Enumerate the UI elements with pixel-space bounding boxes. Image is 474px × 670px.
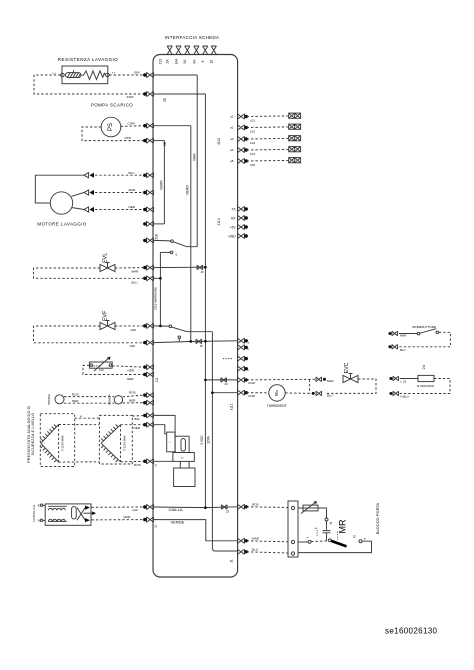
switch S1 blade — [173, 242, 197, 247]
svg-text:RESISTENZA LAVAGGIO: RESISTENZA LAVAGGIO — [58, 57, 118, 62]
svg-text:FILTRO A.D.: FILTRO A.D. — [32, 504, 36, 522]
svg-text:a3: a3 — [230, 137, 234, 141]
svg-text:NERO: NERO — [186, 185, 190, 195]
svg-text:NTB: NTB — [125, 136, 131, 140]
junction dot GIA-V2 — [204, 506, 207, 509]
sensor NTC term left — [90, 364, 93, 367]
wire press2 — [154, 425, 167, 434]
board right pin bottom 2 — [238, 538, 248, 543]
motor wire 3 dashed — [95, 209, 144, 211]
doorlock cap wire 2 — [326, 533, 328, 542]
motor connector pair 1 — [84, 173, 94, 178]
board left pin J8 (y=223.9) — [143, 221, 153, 226]
lamp wire 5 — [247, 159, 289, 162]
svg-text:23: 23 — [226, 509, 230, 513]
doorlock bottom rail — [298, 541, 372, 552]
svg-text:J112: J112 — [217, 138, 221, 145]
svg-text:VERDE: VERDE — [171, 519, 185, 524]
wire y=125.7 — [154, 125, 191, 127]
svg-text:12K: 12K — [99, 368, 104, 372]
svg-text:BLU: BLU — [252, 547, 258, 551]
svg-text:GRI: GRI — [130, 344, 136, 348]
doorlock term 2 — [291, 540, 294, 543]
valve EVF — [100, 321, 115, 330]
switch S1 contact circle — [171, 240, 174, 243]
relay block B inner — [181, 439, 185, 452]
board left pin J12 (y=325.9) — [143, 323, 153, 328]
filter term top — [40, 504, 42, 506]
svg-text:GRI: GRI — [131, 328, 137, 332]
svg-text:J113 MARRONE: J113 MARRONE — [154, 287, 158, 310]
svg-text:5: 5 — [176, 253, 178, 257]
svg-text:R.230V/16W: R.230V/16W — [417, 384, 434, 388]
svg-text:GIA: GIA — [133, 508, 139, 512]
svg-text:C: C — [351, 535, 356, 538]
svg-text:BLU: BLU — [400, 348, 406, 352]
wire EVC dashed — [247, 378, 316, 381]
wire M dashed a — [247, 392, 269, 394]
switch S2 contact 2 — [178, 336, 181, 339]
board left pin J5 (y=175.2) — [143, 173, 153, 178]
wire EVC y=379.9 — [205, 379, 237, 381]
svg-text:N.BLU: N.BLU — [401, 395, 410, 399]
svg-text:TX: TX — [231, 207, 236, 211]
relay block D — [174, 468, 195, 487]
svg-text:2E: 2E — [163, 98, 167, 102]
connector J14 pin 1 — [238, 206, 248, 211]
board left pin J1 (y=75) — [143, 72, 153, 77]
svg-text:N: N — [38, 519, 40, 523]
svg-text:MAR: MAR — [252, 536, 260, 540]
svg-text:24: 24 — [421, 364, 426, 369]
svg-text:INTERFACCIA SCHEDA: INTERFACCIA SCHEDA — [165, 35, 220, 40]
wire sensor R dashed b — [123, 402, 144, 404]
svg-text:E: E — [38, 504, 40, 508]
wire V5 vertical x=212.4 — [212, 332, 237, 551]
connector inline EVL — [197, 265, 203, 270]
lamp wire 1 — [247, 115, 289, 118]
svg-text:P.1234 MAX: P.1234 MAX — [122, 435, 126, 450]
svg-text:-: - — [92, 66, 93, 70]
board left pin J2 (y=94) — [143, 91, 153, 96]
wire doorlock L1 dashed — [247, 506, 288, 509]
motor connector pair 3 — [84, 207, 94, 212]
svg-text:+5V: +5V — [230, 225, 237, 229]
resistor R2 body — [418, 375, 434, 381]
board right pin mid 4 — [238, 366, 248, 371]
wire press1 — [154, 415, 176, 436]
svg-text:COM: COM — [248, 381, 256, 385]
board left pin J9 (y=240.4) — [143, 238, 153, 243]
svg-text:L: L — [314, 527, 318, 529]
wire doorlock L3 dashed — [247, 552, 288, 553]
relay stub 1 — [179, 461, 181, 468]
junction dot M-V5 — [211, 391, 214, 394]
svg-text:MAR: MAR — [327, 379, 333, 383]
svg-text:c: c — [248, 368, 250, 372]
board right pin mid 5 — [238, 377, 248, 382]
svg-text:a5: a5 — [230, 159, 234, 163]
wire EVL right dashed — [115, 267, 144, 269]
relay dashed vert — [337, 532, 339, 541]
connector J13 pin 5 — [203, 46, 208, 55]
pressure switch left triangle — [41, 424, 59, 462]
connector EVC 2 — [316, 391, 322, 396]
switch S1 stub — [154, 239, 171, 242]
doorlock dashed link — [311, 540, 328, 543]
filter capacitor — [72, 507, 77, 519]
doorlock term 1 — [291, 506, 294, 509]
pressure switch left dashed box — [40, 414, 74, 467]
switch S2 contact circle — [169, 325, 172, 328]
wire EVL y=267.6 — [154, 266, 206, 268]
motor wire 3 — [72, 208, 84, 210]
wire EVC right dashed — [326, 379, 376, 393]
relay pivot — [328, 539, 331, 542]
svg-text:GRI: GRI — [134, 71, 140, 75]
svg-text:MAR: MAR — [400, 334, 406, 338]
relay stub 2 — [188, 461, 190, 468]
svg-text:MAR: MAR — [124, 515, 132, 519]
connector J13 pin 3 — [185, 46, 190, 55]
filter arrow top — [85, 506, 90, 510]
svg-text:COM: COM — [248, 394, 256, 398]
svg-text:MARR: MARR — [159, 180, 163, 190]
filter term bottom — [40, 519, 42, 521]
wire filter top dashed — [92, 506, 144, 508]
doorlock fuse F2 — [301, 502, 318, 514]
svg-text:INTERRUTTORE: INTERRUTTORE — [412, 325, 436, 329]
svg-text:NER: NER — [127, 377, 134, 381]
connector J14 pin 3 — [238, 224, 248, 229]
motor connector pair 2 — [84, 190, 94, 195]
svg-text:MAR: MAR — [193, 153, 197, 161]
svg-text:NER: NER — [72, 399, 79, 403]
main control board outline U1 — [153, 55, 238, 578]
wire press link apex — [59, 424, 100, 426]
svg-text:GND: GND — [228, 234, 236, 238]
board right pin lamp L1 — [238, 114, 248, 119]
svg-text:J111: J111 — [230, 403, 234, 410]
svg-text:L05: L05 — [250, 163, 255, 167]
svg-text:a1: a1 — [230, 115, 234, 119]
svg-text:NER: NER — [134, 426, 141, 430]
pump PS circle — [101, 117, 121, 137]
lamp DL3 — [289, 136, 301, 141]
svg-text:L02: L02 — [250, 130, 255, 134]
switch S2 blade — [172, 327, 213, 332]
svg-text:L04: L04 — [250, 152, 255, 156]
junction dot EVFr-V3 — [190, 340, 193, 343]
wire EVL return y=278.3 — [154, 277, 161, 279]
board right pin lamp L3 — [238, 136, 248, 141]
svg-text:ROS: ROS — [129, 391, 136, 395]
wire M dashed b — [285, 392, 309, 395]
svg-text:MOTORE LAVAGGIO: MOTORE LAVAGGIO — [37, 222, 86, 227]
svg-text:14A: 14A — [174, 58, 178, 65]
connector J14 pin 2 — [238, 215, 248, 220]
svg-text:P.1234 MAX: P.1234 MAX — [61, 435, 65, 450]
board right pin mid 6 — [238, 390, 248, 395]
board left pin J17 (y=402.7) — [143, 400, 153, 405]
svg-text:230V: 230V — [127, 95, 135, 99]
svg-text:PS: PS — [108, 123, 114, 131]
switch S1 contact 2 — [170, 251, 173, 254]
connector inline EVC — [221, 378, 227, 383]
svg-text:2L: 2L — [154, 524, 158, 528]
svg-text:J114: J114 — [217, 218, 221, 225]
doorlock cap wire — [326, 521, 328, 530]
svg-text:J9: J9 — [201, 270, 204, 274]
valve EVL — [100, 263, 115, 272]
svg-text:se160026130: se160026130 — [385, 627, 438, 636]
wire resistor loop — [34, 75, 144, 94]
lamp wire 2 — [247, 126, 289, 129]
svg-text:TURBOVENT.: TURBOVENT. — [267, 404, 287, 408]
wire y=96 — [154, 93, 206, 95]
svg-text:~: ~ — [169, 441, 171, 445]
board left pin J4 (y=140.6) — [143, 138, 153, 143]
wire y=223.9 — [154, 223, 165, 225]
wire EVL left loop dashed — [34, 268, 144, 278]
wire GIALLA y=507 — [154, 506, 238, 509]
capacitor C1 — [323, 531, 331, 533]
svg-text:J11: J11 — [155, 377, 159, 382]
pressure switch right triangle — [101, 425, 120, 463]
wire EVF y=325.9 — [154, 325, 170, 327]
board right pin mid 1 — [238, 338, 248, 343]
wire PS loop — [82, 127, 144, 141]
svg-text:BLOCCO PORTA: BLOCCO PORTA — [375, 502, 380, 534]
sensor circle left — [55, 395, 64, 404]
svg-text:23: 23 — [225, 382, 229, 386]
svg-text:SONDA: SONDA — [107, 393, 111, 405]
board left pin J13 (y=342.6) — [143, 340, 153, 345]
svg-text:6A: 6A — [192, 59, 196, 64]
lamp DL1 — [289, 113, 301, 118]
svg-text:J1: J1 — [230, 559, 234, 563]
connector SW1 b — [392, 345, 398, 350]
svg-text:2E: 2E — [163, 142, 167, 146]
connector inline GIA — [221, 505, 227, 510]
wire PS to COM pin — [121, 125, 144, 128]
doorlock fuse wire a — [298, 507, 303, 509]
svg-text:BLU: BLU — [327, 393, 333, 397]
wire V4 vertical x=164.4 — [163, 141, 165, 224]
relay blade MR — [331, 541, 347, 547]
board left pin J20 (y=461.3) — [143, 459, 153, 464]
wire sensor L dashed a — [64, 396, 114, 398]
resistor R1 terminal left — [61, 73, 65, 77]
connector J14 pin 4 — [238, 233, 248, 238]
connector EVC 1 — [316, 377, 322, 382]
wire press right bottom — [121, 460, 144, 462]
svg-text:ROS: ROS — [72, 392, 79, 396]
lamp wire 4 — [247, 148, 289, 151]
relay block C — [173, 453, 194, 462]
wire VERDE y=519.6 — [154, 520, 238, 541]
svg-text:POMPA SCARICO: POMPA SCARICO — [91, 103, 133, 108]
board right pin bottom 1 — [238, 504, 248, 509]
svg-text:EVF: EVF — [103, 310, 109, 321]
doorlock wire to N — [318, 508, 327, 518]
filter FL1 box — [45, 504, 91, 525]
lamp DL4 — [289, 147, 301, 152]
label L dashes — [316, 530, 318, 537]
wire EVF right dashed — [115, 325, 144, 327]
junction dot EVC-V2 — [204, 379, 207, 382]
lamp DL5 — [289, 158, 301, 163]
sensor circle right — [114, 396, 122, 404]
lamp wire 3 — [247, 137, 289, 140]
board left pin J6 (y=192.5) — [143, 190, 153, 195]
svg-text:BLU: BLU — [132, 280, 138, 284]
svg-text:a2: a2 — [230, 126, 234, 130]
wire NTC loop dashed — [83, 365, 144, 374]
doorlock term C — [359, 540, 362, 543]
relay block A — [167, 432, 175, 452]
svg-text:ROS: ROS — [252, 502, 259, 506]
relay block B — [175, 436, 189, 452]
wire sensor R dashed a — [123, 395, 144, 397]
wire V4b vertical x=160.4 — [159, 252, 161, 326]
svg-text:b: b — [248, 347, 250, 351]
board left pin J19 (y=424.7) — [143, 422, 153, 427]
svg-text:N: N — [328, 521, 333, 524]
wire y=75 — [154, 74, 198, 76]
svg-text:BLU: BLU — [129, 171, 135, 175]
connector SW1 a — [392, 331, 398, 336]
svg-text:MAR: MAR — [132, 270, 140, 274]
board right pin lamp L4 — [238, 147, 248, 152]
valve EVC — [343, 374, 358, 383]
svg-text:-o-: -o- — [181, 456, 184, 460]
svg-text:EVL: EVL — [103, 253, 109, 263]
board right pin bottom 3 — [238, 549, 248, 554]
filter coil bottom — [48, 519, 67, 521]
filter coil top — [48, 506, 67, 510]
svg-text:a: a — [248, 340, 250, 344]
svg-text:SICUREZZA E LIVELLO: SICUREZZA E LIVELLO — [31, 413, 35, 456]
pressure switch right dashed box — [99, 415, 132, 464]
connector J13 pin 6 — [211, 46, 216, 55]
svg-text:NER: NER — [129, 205, 136, 209]
wire M y=392.7 — [212, 392, 237, 394]
svg-text:a4: a4 — [230, 148, 234, 152]
board left pin J18 (y=415.4) — [143, 413, 153, 418]
sensor NTC term right — [109, 364, 112, 367]
svg-text:NER: NER — [128, 369, 135, 373]
svg-text:SONDA: SONDA — [47, 393, 51, 405]
motor wire 2 — [72, 193, 85, 197]
board left pin J21 (y=507) — [143, 504, 153, 509]
svg-text:J8: J8 — [200, 344, 203, 348]
board left pin J3 (y=125.7) — [143, 123, 153, 128]
svg-text:J13: J13 — [159, 59, 163, 65]
svg-text:COM: COM — [128, 121, 136, 125]
connector J13 pin 1 — [167, 46, 172, 55]
filter arrow mid — [84, 512, 93, 514]
svg-text:BIA: BIA — [135, 417, 141, 421]
board left pin J22 (y=519.6) — [143, 517, 153, 522]
fuse F1 — [66, 70, 82, 77]
resistor R2 wire — [400, 378, 418, 380]
board right pin mid 2 — [238, 345, 248, 350]
svg-text:5A: 5A — [183, 59, 187, 64]
svg-text:L.23: L.23 — [401, 380, 407, 384]
wire EVC vert dashed — [309, 380, 311, 394]
motor M1 circle — [50, 192, 72, 214]
svg-text:3 VDC: 3 VDC — [200, 435, 204, 445]
board left pin J7 (y=209.5) — [143, 207, 153, 212]
sensor NTC box — [89, 362, 112, 368]
svg-text:RX: RX — [231, 216, 236, 220]
wire press right apex — [121, 424, 144, 426]
board right pin lamp L2 — [238, 125, 248, 130]
resistor R1 box — [62, 66, 108, 84]
svg-text:NER: NER — [129, 398, 136, 402]
svg-text:a: a — [80, 414, 82, 418]
board right pin mid 3 — [238, 356, 248, 361]
junction dot EVL2-V4b — [159, 277, 162, 280]
wire V2 vertical x=205.4 — [204, 94, 206, 508]
doorlock term L2 — [308, 540, 311, 543]
connector R2 b — [393, 391, 399, 396]
board left pin J11 (y=278.3) — [143, 276, 153, 281]
svg-text:10: 10 — [210, 60, 214, 64]
board left pin J14 (y=367.1) — [143, 365, 153, 370]
svg-text:MAR: MAR — [129, 188, 137, 192]
wire NTC right dashed — [112, 366, 143, 367]
svg-text:12VA: 12VA — [206, 435, 210, 443]
svg-text:ROS: ROS — [134, 463, 141, 467]
resistor R1 terminal right — [106, 73, 110, 77]
svg-text:L03: L03 — [250, 141, 255, 145]
lamp DL2 — [289, 124, 301, 129]
motor wire 2 dashed — [95, 192, 144, 194]
svg-text:L01: L01 — [250, 119, 255, 123]
doorlock terminal strip — [288, 501, 298, 557]
doorlock term N — [325, 518, 328, 521]
wire press link bottom — [59, 461, 100, 463]
svg-text:MR: MR — [338, 519, 348, 533]
svg-text:GIALLA: GIALLA — [169, 507, 183, 512]
switch S1 wire 2 — [160, 251, 170, 253]
filter arrow bottom — [85, 518, 90, 522]
switch S2 wire 2 — [178, 339, 180, 342]
connector J13 pin 2 — [176, 46, 181, 55]
wire EVF return y=341.3 — [154, 341, 238, 343]
board left pin J16 (y=395.1) — [143, 393, 153, 398]
wire press link top — [75, 417, 100, 419]
svg-text:M=: M= — [274, 389, 279, 396]
connector R2 a — [393, 376, 399, 381]
wire sensor L dashed b — [64, 402, 114, 404]
svg-text:2A: 2A — [166, 59, 170, 64]
motor wire 1 — [35, 175, 84, 203]
svg-text:a: a — [364, 536, 366, 540]
connector J13 pin 4 — [194, 46, 199, 55]
motor M2 circle — [269, 385, 285, 401]
board right pin lamp L5 — [238, 158, 248, 163]
switch SW1 — [399, 329, 439, 335]
svg-text:+: + — [307, 536, 309, 540]
wire resistor to pin1 — [109, 74, 143, 76]
svg-text:J1: J1 — [154, 464, 158, 468]
junction dot EVL-V2 — [204, 266, 207, 269]
board left pin J15 (y=374.5) — [143, 372, 153, 377]
junction dot EVF-V4b — [159, 325, 162, 328]
